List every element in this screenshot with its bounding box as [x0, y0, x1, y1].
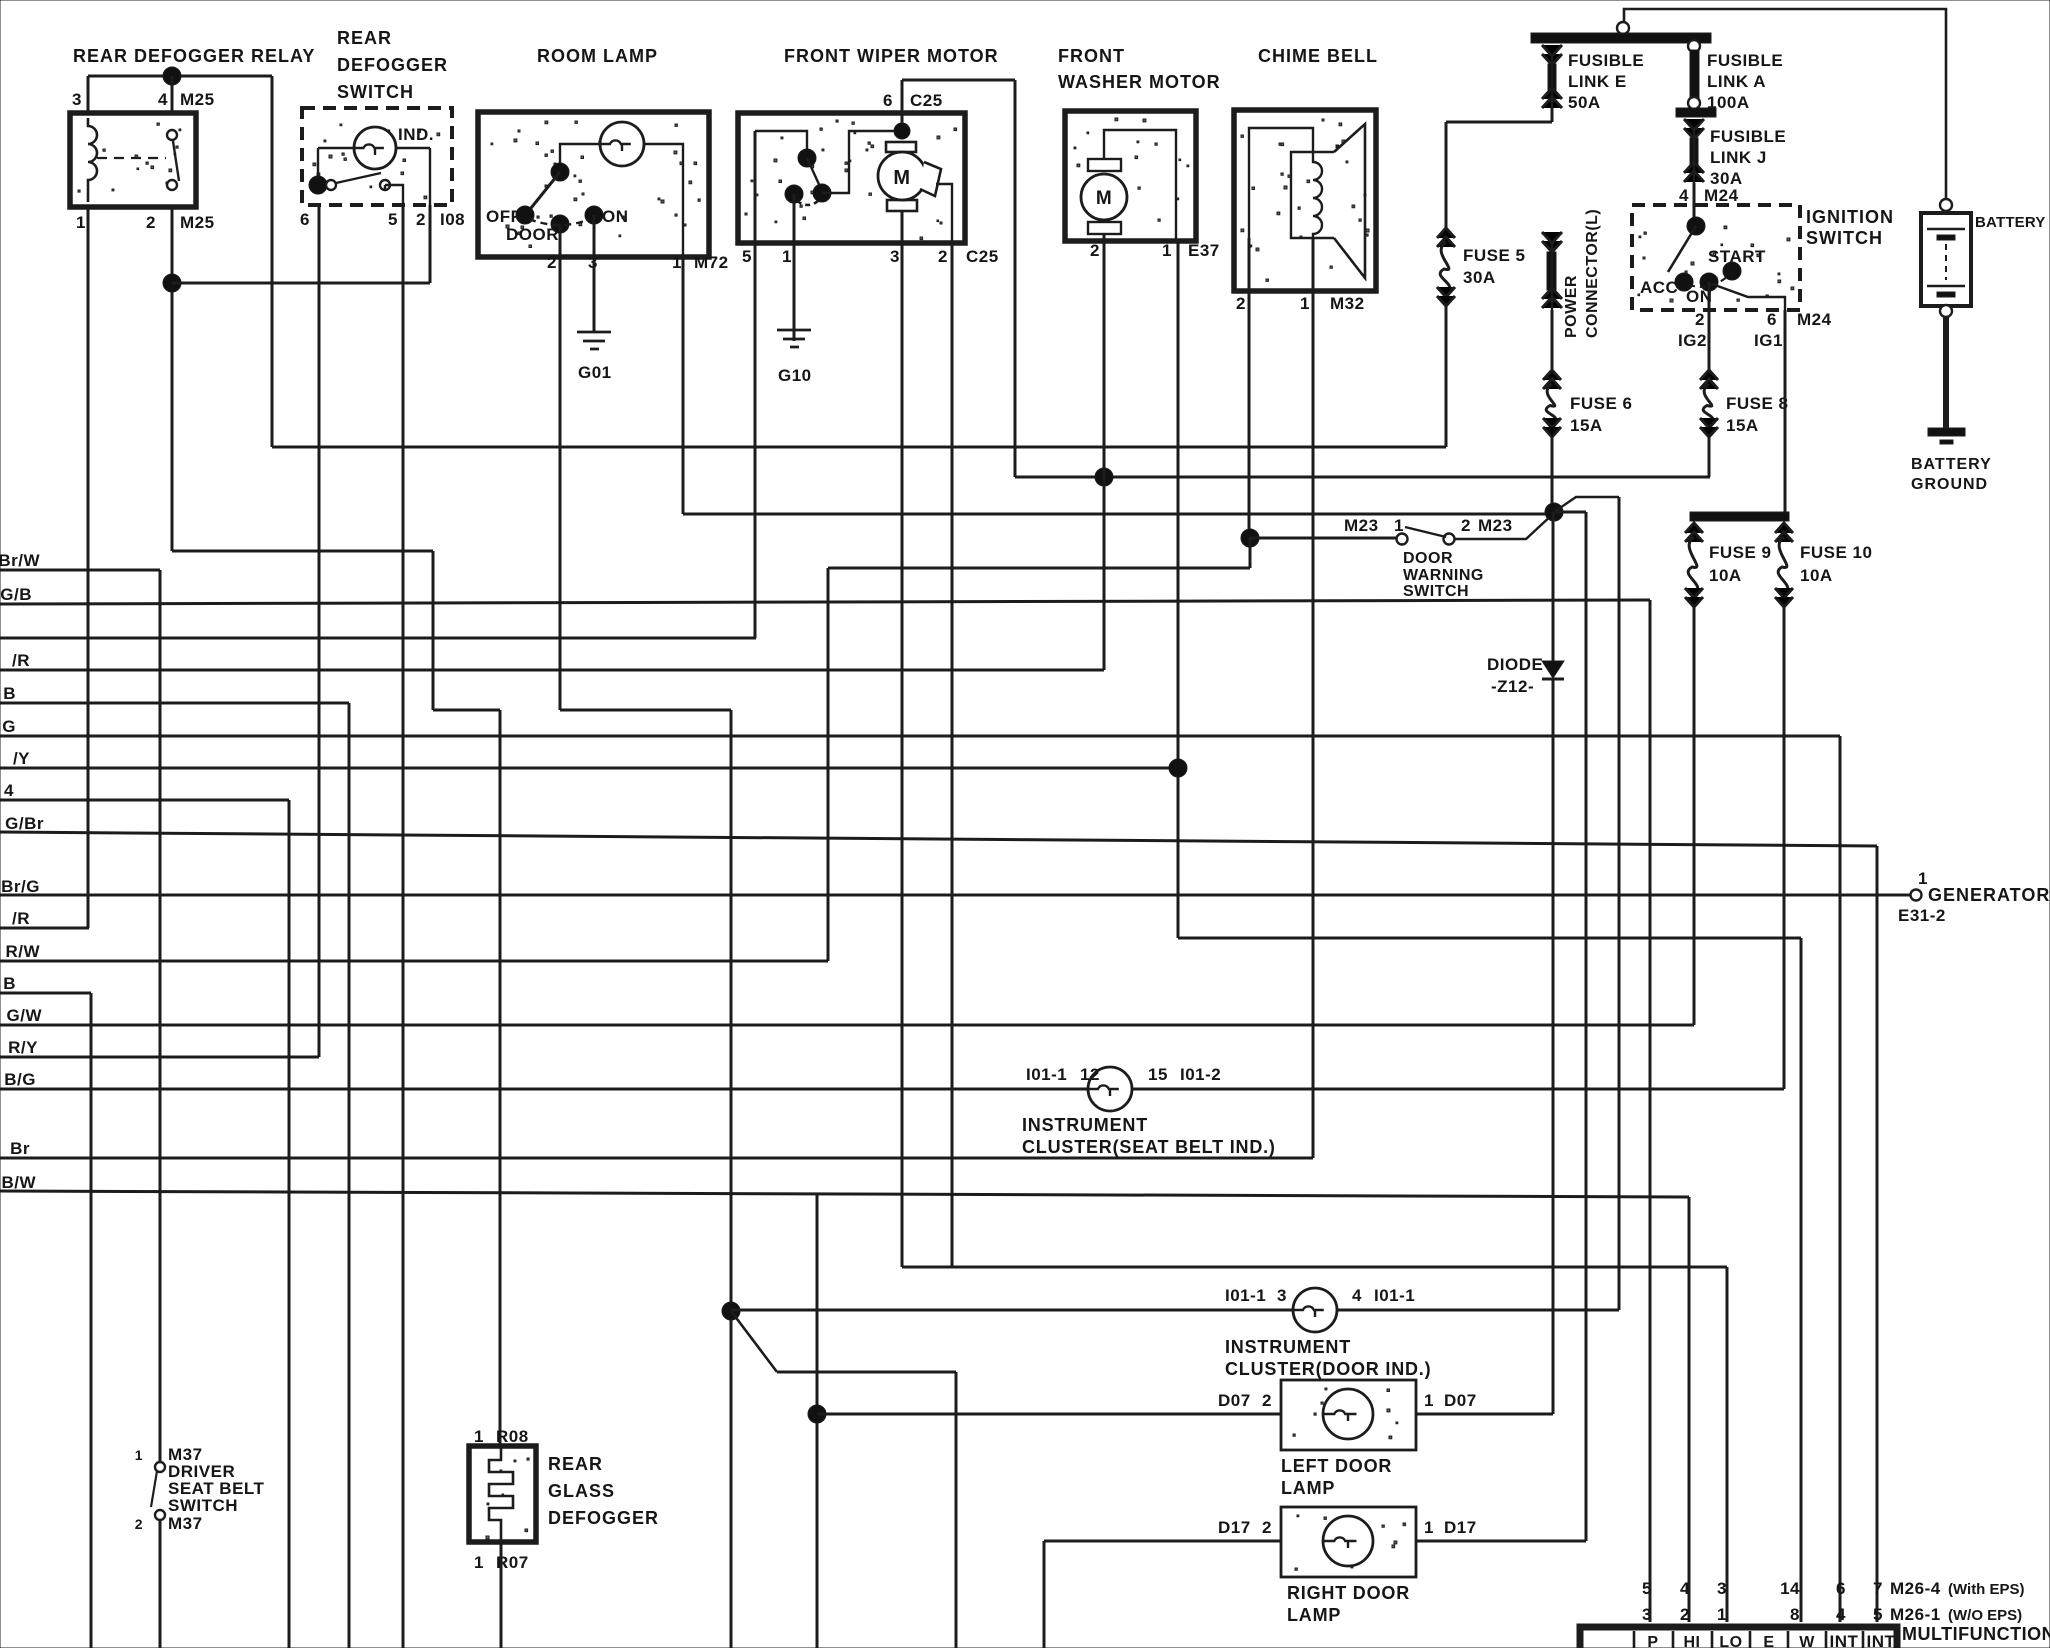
wire pin2 path right	[172, 550, 433, 553]
svg-text:M37: M37	[168, 1514, 203, 1533]
wire Br/G to generator	[0, 894, 1911, 897]
svg-text:E31-2: E31-2	[1898, 906, 1946, 925]
svg-text:I08: I08	[440, 210, 465, 229]
door warning switch M23	[1397, 534, 1408, 545]
wire G	[0, 735, 1840, 738]
wiper motor right tap	[936, 184, 952, 242]
wire G/Br	[0, 832, 1877, 846]
wire linkE to fuse5	[1446, 121, 1552, 124]
node feed circle	[1617, 22, 1629, 34]
seat belt blade	[151, 1471, 157, 1507]
relay blade	[173, 141, 179, 181]
svg-text:5: 5	[1642, 1579, 1652, 1598]
defogger contact to pin5	[385, 185, 403, 205]
wire defogger switch pin2 down	[429, 205, 432, 283]
svg-text:2: 2	[1236, 294, 1246, 313]
svg-text:IGNITION: IGNITION	[1806, 207, 1894, 227]
node chime M23 junction	[1241, 529, 1259, 547]
wire chime pin2 tail	[1249, 538, 1252, 568]
ignition blade	[1668, 226, 1696, 272]
wire BrW down	[159, 570, 162, 1461]
wire relay top bus	[88, 75, 272, 78]
svg-text:6: 6	[883, 91, 893, 110]
wire fuse5 up	[1445, 122, 1448, 228]
svg-text:R/W: R/W	[5, 942, 40, 961]
wire powerconn down	[1551, 310, 1554, 370]
svg-text:1: 1	[474, 1427, 484, 1446]
svg-text:4: 4	[4, 781, 14, 800]
svg-text:C25: C25	[966, 247, 999, 266]
svg-text:Br/G: Br/G	[1, 877, 40, 896]
svg-text:D17: D17	[1218, 1518, 1251, 1537]
washer motor M	[1081, 174, 1127, 220]
wire junction to diode	[1552, 512, 1555, 661]
svg-text:FUSIBLE: FUSIBLE	[1707, 51, 1783, 70]
svg-text:FRONT: FRONT	[1058, 46, 1125, 66]
wire G/B	[0, 600, 1650, 604]
node relay top junction	[163, 67, 181, 85]
svg-text:15A: 15A	[1726, 416, 1759, 435]
svg-text:1: 1	[1424, 1518, 1434, 1537]
wire washer to W pin	[1178, 937, 1801, 940]
svg-text:ACC: ACC	[1640, 278, 1678, 297]
svg-text:LINK A: LINK A	[1707, 72, 1766, 91]
generator terminal	[1911, 890, 1922, 901]
svg-text:LINK J: LINK J	[1710, 148, 1767, 167]
svg-text:2: 2	[1695, 310, 1705, 329]
svg-text:14: 14	[1780, 1579, 1800, 1598]
svg-text:6: 6	[1767, 310, 1777, 329]
wire R07 down	[500, 1542, 503, 1648]
wire wiper pin1 ground stub	[793, 243, 795, 305]
svg-text:4: 4	[1836, 1605, 1846, 1624]
svg-text:CLUSTER(SEAT BELT IND.): CLUSTER(SEAT BELT IND.)	[1022, 1137, 1276, 1157]
svg-text:G10: G10	[778, 366, 812, 385]
power connector L	[1542, 232, 1562, 252]
svg-text:INSTRUMENT: INSTRUMENT	[1022, 1115, 1148, 1135]
svg-text:5: 5	[388, 210, 398, 229]
node wiper motor top junction	[894, 123, 910, 139]
wire chime branch down	[827, 568, 830, 961]
svg-text:1: 1	[1424, 1391, 1434, 1410]
svg-text:3: 3	[1717, 1579, 1727, 1598]
svg-text:1: 1	[1918, 869, 1928, 888]
M23 blade	[1405, 527, 1446, 537]
left door lamp bulb	[1323, 1389, 1373, 1439]
chime speaker cone	[1334, 124, 1365, 278]
fusible link J	[1684, 119, 1704, 139]
svg-text:1: 1	[1162, 241, 1172, 260]
node wiper blade bottom	[813, 184, 831, 202]
wire room pin2 down	[559, 224, 562, 710]
svg-text:4: 4	[1679, 186, 1689, 205]
wire M37 down	[159, 1520, 162, 1648]
svg-text:/Y: /Y	[13, 749, 30, 768]
svg-text:CLUSTER(DOOR IND.): CLUSTER(DOOR IND.)	[1225, 1359, 1431, 1379]
fuse 6	[1543, 370, 1561, 380]
room lamp blade	[527, 172, 560, 213]
svg-text:/R: /R	[12, 651, 30, 670]
svg-text:1: 1	[135, 1447, 143, 1463]
node wiper park contact	[785, 185, 803, 203]
svg-text:(W/O EPS): (W/O EPS)	[1948, 1607, 2022, 1624]
svg-text:M: M	[1096, 188, 1112, 209]
wire relay pin2 down	[171, 207, 174, 551]
wire fuse6 down	[1551, 437, 1554, 512]
wire wiper pin6 up	[901, 80, 904, 131]
wire junction to D17 branch	[1554, 511, 1586, 514]
wire D17 feed down	[1585, 512, 1588, 1541]
svg-text:M32: M32	[1330, 294, 1365, 313]
svg-text:2: 2	[1680, 1605, 1690, 1624]
wire linkJ down	[1693, 183, 1696, 226]
ground G10	[777, 330, 811, 347]
rear glass defogger box	[486, 1458, 529, 1539]
svg-text:WARNING: WARNING	[1403, 567, 1484, 584]
svg-text:6: 6	[1836, 1579, 1846, 1598]
svg-text:3: 3	[1642, 1605, 1652, 1624]
chime coil	[1313, 152, 1322, 238]
wire B/W	[0, 1191, 1689, 1197]
wire B branch down	[348, 703, 351, 1648]
svg-text:IG1: IG1	[1754, 331, 1783, 350]
svg-text:50A: 50A	[1568, 93, 1601, 112]
svg-text:1: 1	[1717, 1605, 1727, 1624]
wire fuse5 down	[1445, 306, 1448, 447]
room lamp bulb	[600, 122, 644, 166]
svg-text:G01: G01	[578, 363, 612, 382]
svg-text:SWITCH: SWITCH	[337, 82, 414, 102]
washer brush bottom	[1088, 222, 1121, 234]
wire linkE down	[1551, 108, 1554, 122]
wire fuse9 down to GW	[1693, 607, 1696, 1025]
svg-text:DOOR: DOOR	[506, 225, 559, 244]
wire door ind left	[731, 1309, 1293, 1312]
svg-text:LAMP: LAMP	[1287, 1605, 1341, 1625]
wire door branch diagonal	[731, 1311, 777, 1372]
wire defogger pin5 down	[402, 205, 405, 1648]
bus bar main	[1531, 33, 1711, 43]
wire pin6 top right	[902, 79, 1015, 82]
svg-text:FUSE 5: FUSE 5	[1463, 246, 1526, 265]
svg-text:LAMP: LAMP	[1281, 1478, 1335, 1498]
svg-text:M25: M25	[180, 90, 215, 109]
wire D17 left	[1044, 1540, 1281, 1543]
svg-text:I01-2: I01-2	[1180, 1065, 1221, 1084]
svg-text:OFF: OFF	[486, 207, 522, 226]
chime coil box	[1291, 152, 1334, 238]
svg-text:G/W: G/W	[7, 1006, 43, 1025]
defogger lamp left wire	[318, 148, 354, 180]
svg-text:BATTERY: BATTERY	[1911, 456, 1992, 473]
wire W pin down	[1800, 938, 1803, 1622]
wire Br	[0, 1157, 1313, 1160]
svg-text:FUSIBLE: FUSIBLE	[1568, 51, 1644, 70]
svg-text:2: 2	[416, 210, 426, 229]
wire top feed	[1624, 9, 1946, 205]
fusible link A	[1690, 50, 1699, 98]
svg-text:5: 5	[742, 247, 752, 266]
svg-text:2: 2	[1090, 241, 1100, 260]
wire IG1 inside	[1712, 284, 1785, 310]
node washer pin1 GY junction	[1169, 759, 1187, 777]
battery top terminal	[1940, 199, 1952, 211]
wire door branch down	[955, 1372, 958, 1648]
node washer junction	[1095, 468, 1113, 486]
svg-text:ROOM LAMP: ROOM LAMP	[537, 46, 658, 66]
bus bar small	[1676, 108, 1716, 117]
svg-text:D07: D07	[1444, 1391, 1477, 1410]
svg-text:P: P	[1647, 1634, 1658, 1648]
wire GB to P pin	[1649, 600, 1652, 1622]
svg-text:M23: M23	[1478, 516, 1513, 535]
driver seat belt switch M37	[155, 1462, 165, 1472]
svg-text:2: 2	[1461, 516, 1471, 535]
front wiper motor box C25	[745, 120, 957, 240]
wire chime pin2 down	[1248, 238, 1251, 538]
node door ind junction	[722, 1302, 740, 1320]
node linkA bottom circle	[1688, 97, 1700, 109]
wire wiper pin5 to label3	[754, 243, 757, 638]
wire junction diag right	[1554, 497, 1619, 512]
svg-text:I01-1: I01-1	[1374, 1286, 1415, 1305]
wire wiper pin3 down	[901, 211, 904, 1267]
battery cells	[1927, 228, 1965, 231]
wire B2	[0, 992, 91, 995]
wire room pin1 long right	[683, 513, 1554, 516]
node room lamp pivot	[551, 163, 569, 181]
svg-text:GROUND: GROUND	[1911, 476, 1988, 493]
defogger lamp right wire	[396, 148, 430, 205]
svg-text:LEFT DOOR: LEFT DOOR	[1281, 1456, 1392, 1476]
svg-text:2: 2	[547, 253, 557, 272]
wire 4 branch down	[288, 800, 291, 1648]
svg-text:ON: ON	[602, 207, 629, 226]
multifunction cell dividers	[1634, 1631, 1863, 1648]
wire chime pin1 down	[1312, 238, 1315, 1158]
node relay pin2 junction	[163, 274, 181, 292]
wire IG2 down	[1708, 310, 1711, 370]
wire wiper pin5	[754, 131, 757, 243]
wire relay pin4	[171, 76, 174, 113]
room lamp internal wires	[560, 144, 683, 257]
svg-text:1: 1	[782, 247, 792, 266]
wire room pin2 jog	[560, 709, 731, 712]
svg-text:M26-1: M26-1	[1890, 1605, 1941, 1624]
wire B2 branch down	[90, 993, 93, 1648]
wiper park arc	[797, 201, 818, 205]
svg-text:D17: D17	[1444, 1518, 1477, 1537]
wire room pin1 down	[682, 257, 685, 514]
svg-text:8: 8	[1790, 1605, 1800, 1624]
wire room pin3 down	[593, 215, 596, 332]
wiper moving contact link	[822, 131, 894, 193]
room lamp box M72	[491, 121, 700, 248]
svg-text:R/Y: R/Y	[8, 1038, 38, 1057]
node D07 junction	[808, 1405, 826, 1423]
wire IG2 inside	[1708, 282, 1711, 310]
defogger contact circles	[326, 180, 336, 190]
rear defogger relay box M25	[78, 123, 181, 192]
wiper motor M	[878, 152, 926, 200]
ground G01	[577, 332, 611, 349]
wire pin2 to switch pin2	[172, 282, 430, 285]
svg-text:B/G: B/G	[4, 1070, 36, 1089]
relay contact circles	[167, 130, 177, 140]
svg-text:IND.: IND.	[398, 125, 434, 144]
svg-text:Br: Br	[10, 1139, 30, 1158]
svg-text:2: 2	[1262, 1391, 1272, 1410]
battery bottom terminal	[1940, 305, 1952, 317]
svg-text:M72: M72	[694, 253, 729, 272]
svg-text:2: 2	[146, 213, 156, 232]
door indicator lamp	[1293, 1288, 1337, 1332]
wire relay supply right	[271, 76, 274, 447]
svg-text:FRONT WIPER MOTOR: FRONT WIPER MOTOR	[784, 46, 999, 66]
svg-text:M26-4: M26-4	[1890, 1579, 1941, 1598]
node ACC contact	[1675, 273, 1693, 291]
svg-text:1: 1	[474, 1553, 484, 1572]
svg-text:M24: M24	[1797, 310, 1832, 329]
svg-text:2: 2	[135, 1516, 143, 1532]
wire D17 up from bottom	[1043, 1541, 1046, 1648]
svg-text:4: 4	[1352, 1286, 1362, 1305]
wire 4	[0, 799, 289, 802]
svg-text:FUSE 8: FUSE 8	[1726, 394, 1789, 413]
wire pin2 to defogger	[499, 710, 502, 1446]
wire G/W	[0, 1024, 1694, 1027]
wiper motor right flag	[920, 162, 941, 196]
svg-text:MULTIFUNCTION: MULTIFUNCTION	[1902, 1624, 2050, 1644]
svg-text:SWITCH: SWITCH	[1403, 583, 1469, 600]
svg-text:1: 1	[1394, 516, 1404, 535]
wire BW to HI pin	[1688, 1197, 1691, 1622]
wire B/G left of lamp	[0, 1088, 1093, 1091]
seat belt indicator lamp	[1088, 1067, 1132, 1111]
svg-text:G: G	[2, 717, 16, 736]
node ON contact	[585, 206, 603, 224]
svg-text:REAR DEFOGGER RELAY: REAR DEFOGGER RELAY	[73, 46, 315, 66]
front washer motor box E37	[1074, 118, 1189, 221]
wire D07 right	[1416, 1413, 1553, 1416]
svg-text:IG2: IG2	[1678, 331, 1707, 350]
svg-text:LINK E: LINK E	[1568, 72, 1627, 91]
svg-text:R08: R08	[496, 1427, 529, 1446]
node main junction	[1545, 503, 1563, 521]
fuse 9	[1685, 523, 1703, 533]
wire Br/W	[0, 569, 160, 572]
wire fuse10 down to WG	[1783, 607, 1786, 1089]
svg-text:C25: C25	[910, 91, 943, 110]
svg-text:15: 15	[1148, 1065, 1168, 1084]
wire M23 feed	[1250, 537, 1397, 540]
svg-text:M25: M25	[180, 213, 215, 232]
wiper inner loop	[755, 131, 807, 152]
chime inner wire	[1249, 128, 1313, 291]
svg-text:12: 12	[1080, 1065, 1100, 1084]
svg-text:D07: D07	[1218, 1391, 1251, 1410]
svg-text:(With EPS): (With EPS)	[1948, 1581, 2025, 1598]
wire G to INT	[1839, 736, 1842, 1622]
svg-text:4: 4	[1680, 1579, 1690, 1598]
node linkA top circle	[1688, 40, 1700, 52]
svg-text:SWITCH: SWITCH	[168, 1496, 238, 1515]
wire R/Y	[0, 1056, 319, 1059]
right door lamp bulb	[1323, 1516, 1373, 1566]
svg-text:POWER: POWER	[1563, 275, 1580, 338]
svg-text:BATTERY: BATTERY	[1975, 214, 2046, 231]
svg-text:LO: LO	[1719, 1634, 1742, 1648]
svg-text:4: 4	[158, 90, 168, 109]
wire relay supply to fuse5	[272, 446, 1446, 449]
wire relay pin3 up	[87, 76, 90, 113]
wire door branch right	[777, 1371, 956, 1374]
svg-text:HI: HI	[1684, 1634, 1701, 1648]
wire G/Y	[0, 767, 1178, 770]
svg-text:GENERATOR: GENERATOR	[1928, 885, 2050, 905]
fuse 5	[1437, 228, 1455, 238]
svg-text:INT: INT	[1830, 1632, 1859, 1648]
wire pin6 down right side	[1014, 80, 1017, 477]
svg-text:FUSE 9: FUSE 9	[1709, 543, 1772, 562]
diode Z12	[1542, 661, 1564, 678]
node ON contact	[1700, 273, 1718, 291]
node DOOR contact	[551, 215, 569, 233]
wire BW branch down	[816, 1194, 819, 1648]
svg-text:2: 2	[1262, 1518, 1272, 1537]
wiper blade	[807, 158, 822, 191]
wire battery ground thick	[1943, 317, 1949, 428]
svg-text:I01-1: I01-1	[1026, 1065, 1067, 1084]
svg-text:M24: M24	[1704, 186, 1739, 205]
svg-text:DEFOGGER: DEFOGGER	[337, 55, 448, 75]
wire pin2 jog	[433, 709, 500, 712]
svg-text:5: 5	[1873, 1605, 1883, 1624]
wire pin2 path down	[432, 551, 435, 710]
svg-text:1: 1	[672, 253, 682, 272]
fusible link E	[1542, 45, 1562, 65]
svg-text:RIGHT DOOR: RIGHT DOOR	[1287, 1583, 1410, 1603]
svg-text:Br/W: Br/W	[0, 551, 40, 570]
wire B	[0, 702, 349, 705]
wire LO pin down	[1726, 1267, 1729, 1622]
node wiper blade top	[798, 149, 816, 167]
washer brush top	[1088, 159, 1121, 171]
wire diode down to D07	[1552, 679, 1555, 1414]
right door lamp box D17	[1295, 1515, 1406, 1570]
svg-text:E37: E37	[1188, 241, 1220, 260]
wire relay pin1 down	[87, 207, 90, 928]
wiper motor brush top	[886, 142, 916, 152]
defogger IND lamp	[354, 127, 396, 169]
svg-text:3: 3	[72, 90, 82, 109]
wire chime branch left	[828, 567, 1250, 570]
node START contact	[1723, 262, 1741, 280]
wire wiper to multifunction LO	[902, 1266, 1727, 1269]
defogger element	[489, 1446, 513, 1542]
wire D17 right	[1416, 1540, 1586, 1543]
svg-text:INSTRUMENT: INSTRUMENT	[1225, 1337, 1351, 1357]
svg-text:W: W	[1799, 1634, 1815, 1648]
wire D07 left	[817, 1413, 1281, 1416]
wire acc feed to fuse8	[1015, 476, 1710, 479]
wire L/R	[0, 927, 89, 930]
svg-text:CONNECTOR(L): CONNECTOR(L)	[1584, 209, 1601, 338]
node ignition pivot	[1687, 217, 1705, 235]
defogger blade	[336, 173, 381, 183]
svg-text:7: 7	[1873, 1579, 1883, 1598]
svg-text:B/W: B/W	[1, 1173, 36, 1192]
